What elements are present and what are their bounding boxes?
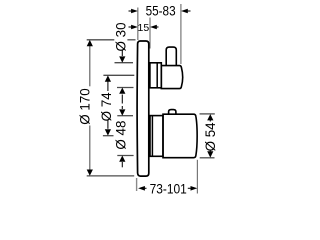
svg-text:Ø 30: Ø 30	[114, 22, 129, 51]
wire: 170 dim line lower segment	[89, 126, 91, 173]
svg-text:Ø 170: Ø 170	[78, 88, 93, 124]
dim diameter 30	[114, 22, 134, 103]
dim diameter 48	[114, 106, 134, 167]
wire: 54 up arrow	[209, 118, 211, 122]
wire: 30 up arrow to bottom tick	[121, 95, 123, 104]
wire: 30 down arrow to top tick	[121, 51, 123, 57]
node: upper knob (temperature handle)	[161, 66, 182, 89]
wire: lower sleeve divider	[151, 116, 153, 156]
wire: 170 bottom tick	[87, 175, 135, 177]
node: escutcheon plate (side profile)	[137, 41, 149, 176]
wire: extension line for 55-83 dim (upper knob face)	[180, 4, 182, 64]
wire: 54 down arrow	[209, 151, 211, 154]
node: lower cartridge sleeve	[150, 116, 163, 157]
svg-text:73-101: 73-101	[150, 181, 187, 196]
wire: upper sleeve divider	[156, 63, 158, 87]
wire: 74 bottom tick	[103, 135, 114, 137]
wire: 170 top tick right part	[127, 39, 135, 41]
wire: 30 top tick	[115, 62, 134, 64]
svg-text:55-83: 55-83	[146, 3, 176, 18]
svg-text:Ø 48: Ø 48	[114, 121, 129, 150]
wire: extension line, reference plane (bottom left)	[136, 178, 138, 191]
node: upper cartridge sleeve	[150, 63, 161, 88]
dim 55-83 (top)	[129, 3, 191, 18]
svg-text:Ø 74: Ø 74	[99, 92, 114, 122]
wire: 170 dim line upper segment	[89, 43, 91, 86]
wire: 170 top tick left part	[87, 39, 115, 41]
dim diameter 74	[99, 75, 134, 135]
node: lower knob button	[169, 110, 176, 114]
wire: 48 top tick	[117, 115, 133, 117]
technical dimension drawing: concealed shower thermostat, side view	[0, 0, 300, 200]
wire: 74 up arrow	[107, 80, 109, 91]
wire: 74 down arrow	[107, 120, 109, 129]
wire: 55-83 left arrow	[129, 10, 133, 12]
svg-text:15: 15	[138, 22, 150, 34]
wire: 55-83 right arrow	[187, 10, 191, 12]
svg-text:Ø 54: Ø 54	[203, 122, 218, 152]
wire: extension line for 15 dim (sleeve face)	[149, 18, 151, 49]
wire: 15 left arrow	[129, 26, 133, 28]
wire: 73-101 left arrow	[143, 187, 146, 189]
node: lower knob (volume handle)	[163, 114, 197, 158]
wire: 74 top tick	[103, 74, 134, 76]
wire: extension line for 73-101 dim (lower knob face)	[196, 160, 198, 194]
wire: 30 bottom tick	[117, 87, 134, 89]
wire: 48 bottom tick	[117, 155, 133, 157]
wire: 73-101 right arrow	[188, 187, 191, 189]
dim 15	[129, 22, 159, 34]
dim 73-101 (bottom)	[138, 181, 197, 196]
node: upper safety stop button	[166, 47, 176, 65]
wire: 48 down arrow to top tick	[121, 106, 123, 109]
wire: 54 bottom tick	[200, 157, 215, 159]
wire: 54 top tick	[200, 113, 215, 115]
dim diameter 170 (left)	[78, 40, 136, 176]
wire: extension line, wall/plate-front plane (top)	[137, 8, 139, 41]
wire: 15 right arrow	[155, 26, 159, 28]
wire: 48 up arrow to bottom tick	[121, 162, 123, 167]
dim diameter 54 (right)	[200, 114, 219, 158]
